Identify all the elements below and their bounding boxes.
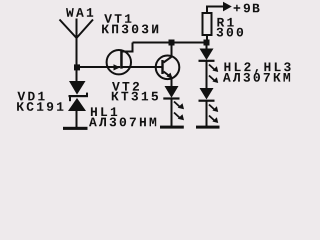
HL2 emission arrows	[209, 65, 218, 84]
label КП303И	[102, 25, 158, 34]
wire R1 bottom	[206, 35, 208, 41]
VT2 emitter arrow	[166, 73, 172, 79]
antenna WA1	[60, 19, 94, 68]
wire top supply rail	[133, 42, 207, 44]
ground bar VD1	[63, 127, 88, 130]
+9V arrow head	[223, 2, 232, 12]
node B VT2 collector junction	[169, 40, 175, 46]
VT1 gate arrow	[114, 64, 121, 70]
label R1	[217, 18, 233, 27]
VD1 left hook	[69, 97, 71, 101]
label КТ315	[112, 92, 158, 101]
ground bar HL1	[160, 126, 184, 129]
VT1 channel bar	[120, 50, 123, 68]
wire HL3 to bottom bar	[206, 102, 208, 129]
wire R1 top to +9V arrow	[207, 7, 224, 14]
resistor R1	[203, 13, 212, 35]
label VT2	[112, 82, 139, 91]
wire VT1 source to VT2 base	[121, 66, 162, 68]
wire HL2 top	[206, 46, 208, 50]
label 300	[217, 28, 244, 37]
node C R1/HL2 junction	[204, 40, 210, 46]
VT2 base bar	[161, 60, 163, 74]
label WA1	[66, 8, 93, 17]
ground bar HL3	[196, 126, 220, 129]
VD1 middle bar	[69, 95, 89, 97]
node A antenna junction	[74, 64, 80, 70]
label В	[253, 4, 260, 13]
transistor VT1	[107, 50, 131, 74]
HL1 cathode bar	[163, 97, 179, 99]
label VT1	[104, 14, 131, 23]
wire VT1 drain	[121, 43, 133, 52]
LED HL1 triangle	[165, 86, 179, 98]
wire VD1 bottom	[76, 111, 78, 128]
VD1 right hook	[86, 93, 88, 97]
label VD1	[17, 92, 44, 101]
wire VD1 top	[76, 67, 78, 82]
LED HL3 triangle	[200, 88, 214, 100]
wire HL2 to HL3	[206, 62, 208, 89]
label HL2,HL3	[224, 62, 290, 73]
label +9	[234, 4, 250, 13]
HL3 emission arrows	[209, 105, 218, 124]
HL3 cathode bar	[199, 100, 215, 102]
transistor VT2	[156, 56, 180, 80]
label АЛ307НМ	[89, 118, 156, 127]
LED HL2 triangle	[200, 49, 214, 61]
label HL1	[91, 107, 117, 116]
HL2 cathode bar	[199, 60, 215, 62]
wire HL1 to bottom bar	[171, 99, 173, 128]
wire VT2 collector	[164, 43, 172, 63]
label АЛ307КМ	[223, 73, 290, 82]
label КС191	[17, 102, 63, 111]
diode VD1 top triangle	[69, 81, 86, 95]
wire antenna node to VT1 gate	[76, 66, 120, 68]
VD1 bottom triangle	[68, 98, 86, 111]
HL1 emission arrows	[174, 102, 184, 121]
wire VT2 emitter	[164, 72, 172, 87]
